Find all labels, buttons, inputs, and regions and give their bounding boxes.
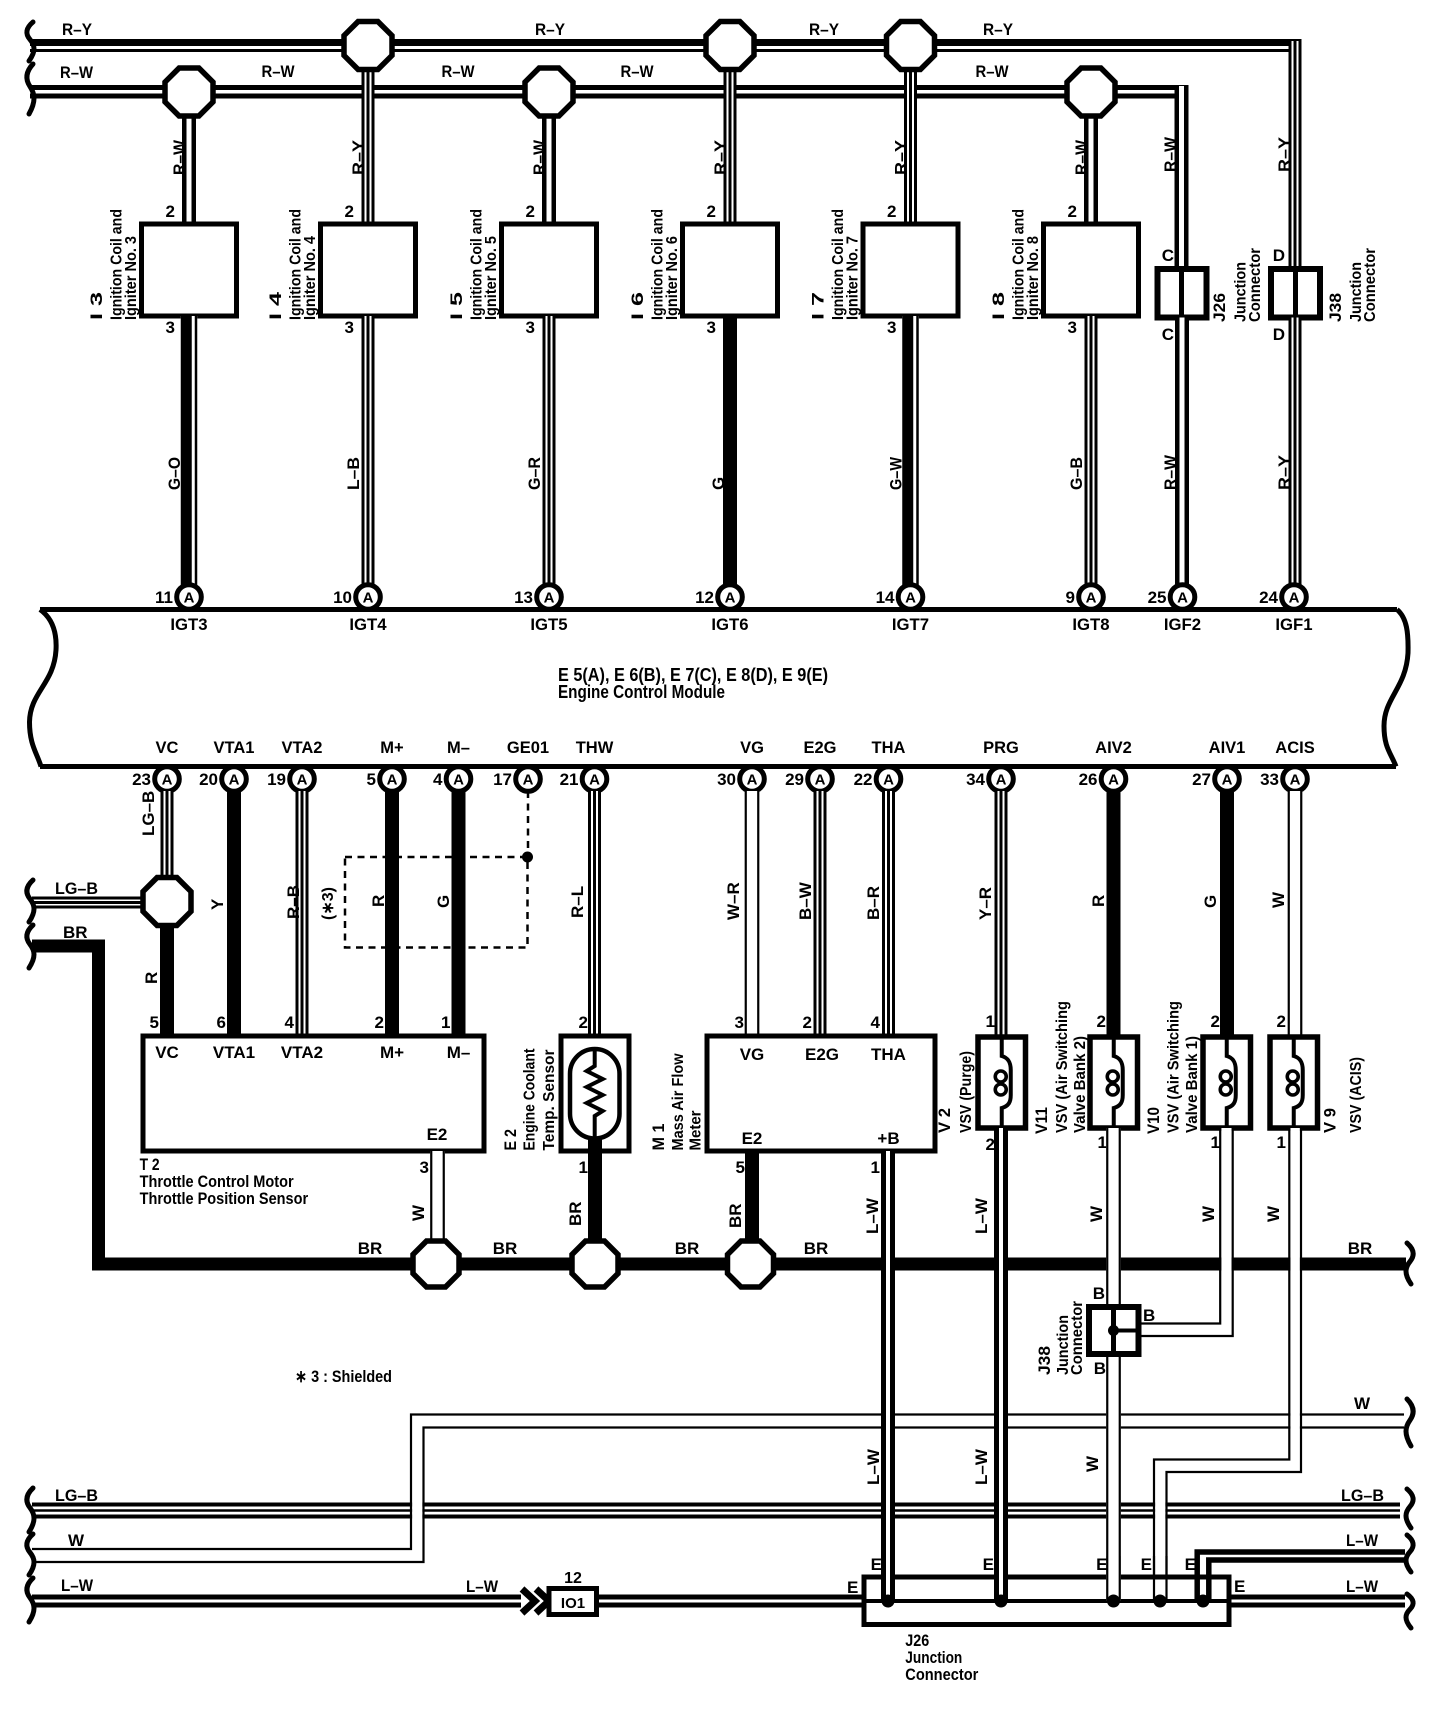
svg-text:AIV2: AIV2 — [1095, 739, 1132, 757]
svg-text:A: A — [363, 590, 374, 607]
svg-text:BR: BR — [804, 1239, 829, 1258]
svg-text:R–Y: R–Y — [711, 139, 730, 175]
label L-W mid — [466, 1577, 499, 1596]
label BR left — [63, 923, 88, 942]
svg-text:A: A — [162, 772, 173, 789]
wire W bus (stepped) — [32, 1415, 1404, 1563]
label V11 VSV (Air Switching Valve Bank 2) — [1032, 1001, 1089, 1134]
label R-W bus — [60, 62, 1009, 82]
svg-text:R: R — [1089, 895, 1108, 907]
wire R-Y bus (top) — [30, 43, 1302, 51]
svg-text:Connector: Connector — [1247, 248, 1264, 322]
svg-text:Connector: Connector — [1362, 248, 1379, 322]
pin 2 I4 — [345, 202, 354, 221]
svg-text:Throttle Position Sensor: Throttle Position Sensor — [140, 1189, 309, 1208]
E2 sensor pin numbers — [579, 1013, 588, 1177]
svg-text:BR: BR — [1348, 1239, 1373, 1258]
label wire color R–W I5 — [530, 139, 549, 175]
svg-text:A: A — [747, 772, 758, 789]
svg-text:BR: BR — [566, 1201, 585, 1226]
wire igniter I4 top (R–Y) — [362, 68, 375, 225]
wire W V9 down and jog to J26 — [1154, 1128, 1301, 1577]
svg-text:BR: BR — [358, 1239, 383, 1258]
brace R-Y bus left — [27, 22, 34, 61]
svg-text:A: A — [523, 772, 534, 789]
pin 2 I8 — [1068, 202, 1077, 221]
svg-text:PRG: PRG — [983, 739, 1019, 757]
svg-text:M–: M– — [447, 739, 470, 757]
label IGF1 — [1275, 615, 1312, 634]
svg-text:THA: THA — [871, 1045, 906, 1064]
svg-text:3: 3 — [420, 1158, 429, 1177]
svg-text:2: 2 — [345, 202, 354, 221]
label wire color G–R I5 — [525, 457, 544, 490]
pin 23 VC (ECM bottom) — [132, 739, 179, 791]
svg-text:W: W — [1083, 1455, 1102, 1472]
node octagon I5 — [525, 68, 573, 116]
wire L-W upper right from J26 — [1197, 1552, 1405, 1577]
pin 5 M+ (ECM bottom) — [367, 739, 405, 791]
label wire color R-Y below J38 — [1275, 454, 1294, 490]
label 12 (IO1 pin) — [564, 1570, 582, 1587]
brace BR left — [27, 925, 34, 968]
svg-text:B: B — [1094, 1359, 1106, 1378]
junction dots J26 — [882, 1595, 1210, 1608]
svg-text:C: C — [1162, 325, 1174, 344]
svg-text:V 9: V 9 — [1321, 1108, 1340, 1133]
wire R-W J26 to IGF2 — [1175, 318, 1189, 586]
svg-text:A: A — [544, 590, 555, 607]
wire shield drain GE01 (dashed) — [527, 791, 530, 855]
pin 19 VTA2 (ECM bottom) — [267, 739, 322, 791]
pin D labels J38 — [1273, 246, 1285, 344]
label wire color G–O I3 — [165, 457, 184, 490]
connector IO1 — [549, 1589, 597, 1615]
svg-text:I 7: I 7 — [809, 292, 828, 320]
svg-text:5: 5 — [736, 1158, 745, 1177]
wire R-B from pin 19 VTA2 — [296, 791, 309, 1036]
wire R-Y J38 to IGF1 — [1289, 318, 1302, 586]
ignition coil I4 box — [321, 224, 416, 316]
shield dashed box (*3) — [345, 852, 533, 948]
svg-text:VG: VG — [740, 1045, 765, 1064]
svg-text:2: 2 — [803, 1013, 812, 1032]
svg-text:W–R: W–R — [724, 882, 743, 920]
svg-text:A: A — [1177, 590, 1188, 607]
svg-text:27: 27 — [1192, 770, 1211, 789]
V10 pin numbers — [1211, 1012, 1220, 1152]
arrow into IO1 — [522, 1589, 549, 1613]
wire igniter I3 bottom (G–O) — [181, 316, 198, 585]
svg-text:Igniter No. 8: Igniter No. 8 — [1025, 236, 1042, 320]
label LG-B vertical — [139, 791, 158, 836]
label W-R — [724, 882, 743, 920]
svg-text:W: W — [1087, 1205, 1106, 1222]
svg-text:E: E — [1234, 1577, 1245, 1596]
svg-text:Valve Bank 1): Valve Bank 1) — [1184, 1036, 1201, 1133]
svg-text:Connector: Connector — [1069, 1301, 1086, 1375]
pin 3 I4 — [345, 318, 354, 337]
label T 2 Throttle Control Motor / Throttle Position Sensor — [140, 1155, 309, 1208]
pin 3 I6 — [707, 318, 716, 337]
label J38 Junction Connector (bottom) — [1035, 1301, 1086, 1375]
svg-text:1: 1 — [1098, 1133, 1107, 1152]
svg-text:R–W: R–W — [170, 139, 189, 175]
wire igniter I3 top (R–W) — [182, 114, 196, 224]
node octagon BR-M1 — [728, 1241, 774, 1287]
svg-text:B: B — [1093, 1284, 1105, 1303]
svg-text:A: A — [815, 772, 826, 789]
svg-text:IGT3: IGT3 — [170, 615, 207, 634]
svg-text:G–W: G–W — [887, 456, 906, 490]
label BR (E2) — [566, 1201, 585, 1226]
label BR (M1) — [726, 1203, 745, 1228]
pin 21 THW (ECM bottom) — [560, 739, 614, 791]
wire R-W corner to J26 — [1175, 86, 1189, 269]
component T2 Throttle box — [143, 1036, 484, 1151]
svg-text:R: R — [142, 972, 161, 984]
label Y — [208, 898, 227, 910]
label IGT7 — [892, 615, 929, 634]
svg-text:2: 2 — [1097, 1012, 1106, 1031]
wire R from pin 26 AIV2 — [1107, 791, 1121, 1037]
wire L-W bus right segment — [1229, 1597, 1405, 1605]
svg-text:R–L: R–L — [568, 886, 587, 918]
svg-text:IGT6: IGT6 — [711, 615, 748, 634]
svg-text:20: 20 — [199, 770, 218, 789]
svg-text:A: A — [1086, 590, 1097, 607]
svg-text:THW: THW — [576, 739, 614, 757]
ignition coil I6 box — [683, 224, 778, 316]
svg-text:IO1: IO1 — [561, 1595, 585, 1612]
svg-text:E: E — [871, 1555, 882, 1574]
label R (VC wire) — [142, 972, 161, 984]
svg-text:5: 5 — [367, 770, 376, 789]
pin 20 VTA1 (ECM bottom) — [199, 739, 254, 791]
svg-text:A: A — [387, 772, 398, 789]
svg-text:2: 2 — [986, 1135, 995, 1154]
label R (AIV2) — [1089, 895, 1108, 907]
svg-text:A: A — [1290, 772, 1301, 789]
M1 pin numbers — [735, 1013, 881, 1177]
svg-text:LG–B: LG–B — [55, 879, 98, 898]
svg-text:E: E — [1185, 1555, 1196, 1574]
label J26 Junction Connector (top) — [1210, 248, 1264, 322]
svg-text:E: E — [1141, 1555, 1152, 1574]
svg-text:2: 2 — [1211, 1012, 1220, 1031]
svg-text:Meter: Meter — [688, 1111, 705, 1151]
svg-text:A: A — [589, 772, 600, 789]
wire L-W from M1 +B pin — [881, 1151, 895, 1601]
svg-text:A: A — [1108, 772, 1119, 789]
label W (V10 wire) — [1199, 1205, 1218, 1222]
svg-text:W: W — [1354, 1394, 1371, 1413]
label wire color L–B I4 — [344, 457, 363, 490]
brace L-W upper right — [1406, 1535, 1413, 1572]
svg-text:M+: M+ — [380, 739, 403, 757]
pin 17 GE01 (ECM bottom) — [493, 739, 549, 791]
svg-text:VC: VC — [156, 739, 179, 757]
label wire color R-W below J26 — [1161, 454, 1180, 490]
pin 9 IGT8 (ECM top) — [1066, 585, 1104, 610]
wire igniter I5 bottom (G–R) — [543, 316, 556, 585]
svg-text:Temp. Sensor: Temp. Sensor — [541, 1050, 558, 1151]
label LG-B left — [55, 879, 98, 898]
label IGT6 — [711, 615, 748, 634]
svg-text:E2: E2 — [742, 1129, 763, 1148]
svg-text:R–W: R–W — [976, 62, 1010, 81]
svg-text:R–Y: R–Y — [809, 20, 840, 39]
ECM Engine Control Module band — [30, 610, 1409, 767]
svg-text:2: 2 — [166, 202, 175, 221]
svg-text:9: 9 — [1066, 588, 1075, 607]
svg-text:30: 30 — [717, 770, 736, 789]
svg-text:R–Y: R–Y — [62, 20, 93, 39]
svg-text:C: C — [1162, 246, 1174, 265]
label E 2 Engine Coolant Temp. Sensor — [501, 1048, 558, 1151]
brace LG-B bottom right — [1406, 1489, 1413, 1528]
pin 4 M– (ECM bottom) — [433, 739, 471, 791]
svg-text:2: 2 — [375, 1013, 384, 1032]
wire LG-B from pin 23 — [161, 791, 174, 879]
svg-text:I 5: I 5 — [447, 292, 466, 320]
svg-text:R–W: R–W — [530, 139, 549, 175]
svg-text:I 4: I 4 — [266, 291, 285, 320]
svg-text:LG–B: LG–B — [1341, 1486, 1384, 1505]
label wire color R–Y I7 — [892, 139, 911, 175]
svg-text:R–Y: R–Y — [892, 139, 911, 175]
svg-text:3: 3 — [887, 318, 896, 337]
svg-text:VSV (Air Switching: VSV (Air Switching — [1166, 1001, 1183, 1133]
brace R-W bus left — [27, 64, 34, 114]
svg-text:Mass Air Flow: Mass Air Flow — [670, 1053, 687, 1151]
wire G from pin 4 M- — [452, 791, 466, 1036]
svg-text:A: A — [725, 590, 736, 607]
ignition coil I5 box — [502, 224, 597, 316]
wire W-R from pin 30 VG — [745, 791, 760, 1036]
wire igniter I8 bottom (G–B) — [1085, 316, 1098, 585]
svg-text:I 8: I 8 — [989, 292, 1008, 320]
svg-text:R–Y: R–Y — [535, 20, 566, 39]
pin B labels J38 bottom — [1093, 1284, 1156, 1378]
brace BR right — [1406, 1243, 1413, 1284]
svg-text:B–R: B–R — [864, 886, 883, 920]
svg-text:M–: M– — [447, 1043, 471, 1062]
brace L-W bottom right — [1406, 1594, 1413, 1628]
label W (V9 wire) — [1264, 1205, 1283, 1222]
svg-text:J38: J38 — [1326, 293, 1345, 322]
svg-text:G–B: G–B — [1067, 457, 1086, 490]
svg-text:VTA2: VTA2 — [282, 739, 323, 757]
svg-text:VTA1: VTA1 — [214, 739, 255, 757]
svg-text:BR: BR — [63, 923, 88, 942]
pin 24 IGF1 (ECM top) — [1259, 585, 1306, 610]
pin 26 AIV2 (ECM bottom) — [1079, 739, 1132, 791]
pin 33 ACIS (ECM bottom) — [1260, 739, 1315, 791]
svg-text:VTA2: VTA2 — [281, 1043, 323, 1062]
wire igniter I7 top (R–Y) — [904, 68, 917, 225]
component M1 Mass Air Flow Meter box — [707, 1036, 935, 1151]
label (*3) — [320, 887, 337, 920]
label R-L — [568, 886, 587, 918]
svg-text:W: W — [1269, 891, 1288, 908]
label J38 Junction Connector (top) — [1326, 248, 1379, 322]
svg-text:BR: BR — [675, 1239, 700, 1258]
resistor element E2 sensor — [587, 1049, 603, 1138]
label wire color R–W I8 — [1072, 139, 1091, 175]
svg-text:4: 4 — [285, 1013, 295, 1032]
wire B-R from pin 22 THA — [882, 791, 895, 1036]
svg-text:Igniter No. 6: Igniter No. 6 — [664, 236, 681, 320]
component V9 VSV (ACIS) — [1270, 1037, 1318, 1128]
svg-text:13: 13 — [514, 588, 533, 607]
svg-text:22: 22 — [854, 770, 873, 789]
label wire color G I6 — [709, 477, 728, 490]
svg-text:5: 5 — [150, 1013, 159, 1032]
wire W V10 to J38 (corner) — [1139, 1128, 1233, 1336]
node octagon I3 — [165, 68, 213, 116]
svg-text:Engine Control Module: Engine Control Module — [558, 682, 725, 702]
svg-text:R–Y: R–Y — [1275, 454, 1294, 490]
svg-text:Y: Y — [208, 898, 227, 910]
svg-text:IGF2: IGF2 — [1164, 615, 1201, 634]
svg-text:2: 2 — [1277, 1012, 1286, 1031]
svg-text:1: 1 — [986, 1012, 995, 1031]
svg-text:R–W: R–W — [1161, 454, 1180, 490]
wire R octagon to T2 pin 5 — [160, 925, 174, 1037]
wire Y from pin 20 VTA1 — [227, 791, 241, 1036]
svg-text:V11: V11 — [1032, 1107, 1051, 1134]
svg-text:Igniter No. 3: Igniter No. 3 — [123, 236, 140, 320]
svg-text:10: 10 — [333, 588, 352, 607]
svg-text:G: G — [1201, 895, 1220, 908]
svg-text:L–W: L–W — [972, 1448, 991, 1485]
svg-text:4: 4 — [433, 770, 443, 789]
wire L-W bus to J26 — [597, 1597, 867, 1605]
wire G from pin 27 AIV1 — [1220, 791, 1234, 1037]
svg-text:IGT4: IGT4 — [349, 615, 387, 634]
label IGT8 — [1072, 615, 1109, 634]
svg-text:G–O: G–O — [165, 457, 184, 490]
wire W from pin 33 ACIS — [1288, 791, 1303, 1037]
svg-text:IGF1: IGF1 — [1275, 615, 1312, 634]
T2 pin 3 label — [420, 1158, 429, 1177]
svg-text:R–W: R–W — [621, 62, 655, 81]
svg-text:R: R — [369, 895, 388, 907]
brace L-W bottom left — [27, 1578, 34, 1622]
label Engine Control Module — [558, 682, 725, 702]
label I 8 Ignition Coil and Igniter No. 8 — [989, 209, 1042, 320]
svg-text:W: W — [68, 1531, 85, 1550]
label R-Y bus — [62, 20, 1014, 39]
node octagon I7 — [887, 22, 935, 70]
svg-text:LG–B: LG–B — [55, 1486, 98, 1505]
node octagon I6 — [706, 22, 754, 70]
component V10 VSV (Air Switching Valve Bank 1) — [1203, 1037, 1251, 1128]
label G (M-) — [434, 895, 453, 908]
svg-text:D: D — [1273, 246, 1285, 265]
pin 22 THA (ECM bottom) — [854, 739, 906, 791]
svg-text:12: 12 — [695, 588, 714, 607]
svg-text:2: 2 — [526, 202, 535, 221]
svg-text:26: 26 — [1079, 770, 1098, 789]
brace W right — [1406, 1399, 1413, 1446]
wire igniter I4 bottom (L–B) — [362, 316, 375, 585]
svg-text:V10: V10 — [1144, 1107, 1163, 1134]
label V 2 VSV (Purge) — [935, 1051, 975, 1133]
brace LG-B bottom left — [27, 1488, 34, 1532]
wire LG-B bus (bottom) — [32, 1505, 1400, 1517]
pin 12 IGT6 (ECM top) — [695, 585, 742, 610]
svg-text:IGT7: IGT7 — [892, 615, 929, 634]
label W bus left — [68, 1531, 85, 1550]
svg-text:R–W: R–W — [1161, 136, 1180, 172]
svg-text:Igniter No. 7: Igniter No. 7 — [845, 236, 862, 320]
label W bus right — [1354, 1394, 1371, 1413]
svg-text:A: A — [1222, 772, 1233, 789]
label IGF2 — [1164, 615, 1201, 634]
svg-text:W: W — [1199, 1205, 1218, 1222]
svg-text:14: 14 — [876, 588, 895, 607]
label IGT5 — [530, 615, 567, 634]
label IGT4 — [349, 615, 387, 634]
svg-text:I 6: I 6 — [628, 292, 647, 320]
svg-text:A: A — [996, 772, 1007, 789]
svg-text:E 2: E 2 — [501, 1129, 520, 1151]
svg-text:A: A — [883, 772, 894, 789]
label I 6 Ignition Coil and Igniter No. 6 — [628, 209, 681, 320]
svg-text:VC: VC — [155, 1043, 179, 1062]
label L-W upper right — [1346, 1531, 1379, 1550]
label Y-R — [976, 887, 995, 920]
label W (T2) — [409, 1204, 428, 1221]
wire R-L from pin 21 THW — [588, 791, 601, 1049]
pin 34 PRG (ECM bottom) — [966, 739, 1019, 791]
svg-text:L–B: L–B — [344, 457, 363, 490]
wire BR from M1 E2 pin — [745, 1151, 759, 1242]
svg-text:A: A — [229, 772, 240, 789]
svg-text:11: 11 — [155, 588, 173, 607]
brace W left — [27, 1534, 34, 1575]
svg-text:3: 3 — [345, 318, 354, 337]
pin 13 IGT5 (ECM top) — [514, 585, 561, 610]
labels L-W (M1 +B wire) — [863, 1197, 883, 1485]
brace LG-B left — [27, 880, 34, 922]
svg-text:33: 33 — [1260, 770, 1279, 789]
ignition coil I3 box — [142, 224, 237, 316]
svg-text:3: 3 — [1068, 318, 1077, 337]
svg-text:E: E — [847, 1578, 858, 1597]
svg-text:3: 3 — [735, 1013, 744, 1032]
svg-text:23: 23 — [132, 770, 151, 789]
svg-text:R–B: R–B — [284, 885, 303, 919]
label I 4 Ignition Coil and Igniter No. 4 — [266, 209, 319, 320]
node octagon I4 — [344, 22, 392, 70]
svg-text:17: 17 — [493, 770, 512, 789]
svg-text:G–R: G–R — [525, 457, 544, 490]
svg-text:Connector: Connector — [905, 1665, 978, 1684]
label G (AIV1) — [1201, 895, 1220, 908]
svg-text:4: 4 — [871, 1013, 881, 1032]
node octagon I8 — [1067, 68, 1115, 116]
label wire color G–B I8 — [1067, 457, 1086, 490]
label wire color R–Y I4 — [349, 139, 368, 175]
svg-text:Igniter No. 4: Igniter No. 4 — [302, 236, 319, 320]
svg-text:1: 1 — [1277, 1133, 1286, 1152]
label LG-B bottom left — [55, 1486, 98, 1505]
label wire color R-Y IGF1 top — [1275, 136, 1294, 172]
wire B-W from pin 29 E2G — [814, 791, 827, 1036]
